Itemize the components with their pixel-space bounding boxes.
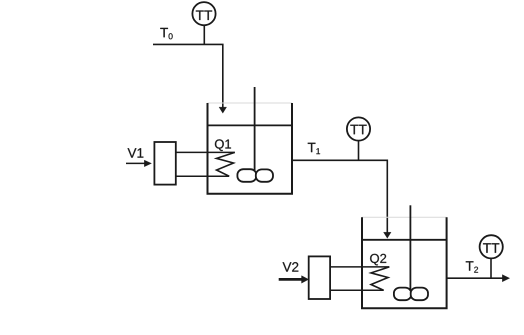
node T0 label (160, 28, 172, 39)
tank 2 top rim (362, 216, 447, 218)
tank 1 top rim (208, 102, 293, 104)
wire V2 inlet arrow (bold) (279, 276, 309, 284)
temperature transmitter TT2 (347, 117, 370, 140)
node V2 label (283, 262, 299, 271)
heater Q1 zigzag (217, 152, 235, 176)
node Q1 label (215, 139, 231, 151)
node T2 label (466, 261, 478, 272)
valve V1 (154, 142, 175, 185)
temperature transmitter TT3 (480, 235, 503, 258)
wire V1 inlet arrow (126, 160, 152, 167)
stirrer impeller 2 (394, 288, 428, 301)
valve V2 (309, 256, 330, 299)
temperature transmitter TT1 (192, 2, 215, 25)
wire valve V1 to heater top (176, 151, 235, 153)
stirrer shaft 2 (409, 205, 411, 292)
wire valve V2 to heater bottom (330, 289, 384, 291)
stirrer impeller 1 (237, 169, 273, 182)
tank 2 walls and bottom (362, 217, 447, 308)
node Q2 label (370, 254, 386, 266)
wire pipe T1 from tank 1 to tank 2 (292, 160, 391, 238)
wire valve V2 to heater top (330, 266, 389, 268)
tank 2 liquid level (362, 239, 447, 241)
wire TT2 stem (358, 141, 360, 161)
wire outlet pipe T2 with arrow (447, 275, 510, 282)
node T1 label (308, 143, 320, 154)
node V1 label (128, 148, 144, 157)
wire feed pipe T0 into tank 1 (153, 44, 227, 113)
tank 1 liquid level (208, 124, 293, 126)
wire TT1 stem (203, 25, 205, 44)
wire TT3 stem (490, 258, 492, 278)
heater Q2 zigzag (371, 267, 389, 290)
stirrer shaft 1 (254, 87, 256, 174)
tank 1 walls and bottom (208, 103, 293, 194)
wire valve V1 to heater bottom (176, 175, 229, 177)
